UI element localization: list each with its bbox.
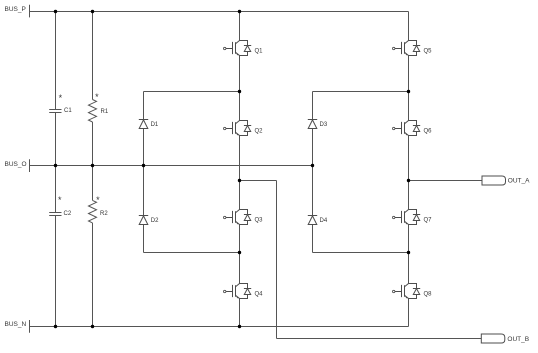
svg-text:Q3: Q3 bbox=[255, 217, 264, 223]
svg-text:Q2: Q2 bbox=[255, 128, 264, 134]
svg-text:BUS_P: BUS_P bbox=[5, 6, 26, 13]
svg-text:*: * bbox=[96, 195, 100, 205]
svg-text:*: * bbox=[59, 93, 63, 103]
svg-text:Q1: Q1 bbox=[255, 48, 264, 54]
svg-text:Q6: Q6 bbox=[424, 128, 433, 134]
svg-text:R1: R1 bbox=[101, 109, 109, 115]
svg-text:C1: C1 bbox=[64, 108, 72, 114]
svg-text:D2: D2 bbox=[151, 218, 159, 224]
svg-text:Q7: Q7 bbox=[424, 217, 433, 223]
svg-text:D1: D1 bbox=[151, 122, 159, 128]
svg-text:BUS_N: BUS_N bbox=[5, 321, 27, 328]
svg-text:*: * bbox=[95, 92, 99, 102]
svg-text:BUS_O: BUS_O bbox=[5, 161, 27, 168]
svg-text:Q8: Q8 bbox=[424, 291, 433, 297]
svg-text:OUT_B: OUT_B bbox=[507, 336, 529, 343]
svg-text:R2: R2 bbox=[100, 211, 108, 217]
svg-text:OUT_A: OUT_A bbox=[508, 178, 530, 185]
svg-text:*: * bbox=[58, 195, 62, 205]
svg-text:D3: D3 bbox=[320, 122, 328, 128]
svg-text:D4: D4 bbox=[320, 218, 328, 224]
svg-text:C2: C2 bbox=[64, 211, 72, 217]
svg-text:Q4: Q4 bbox=[255, 291, 264, 297]
svg-text:Q5: Q5 bbox=[424, 48, 433, 54]
